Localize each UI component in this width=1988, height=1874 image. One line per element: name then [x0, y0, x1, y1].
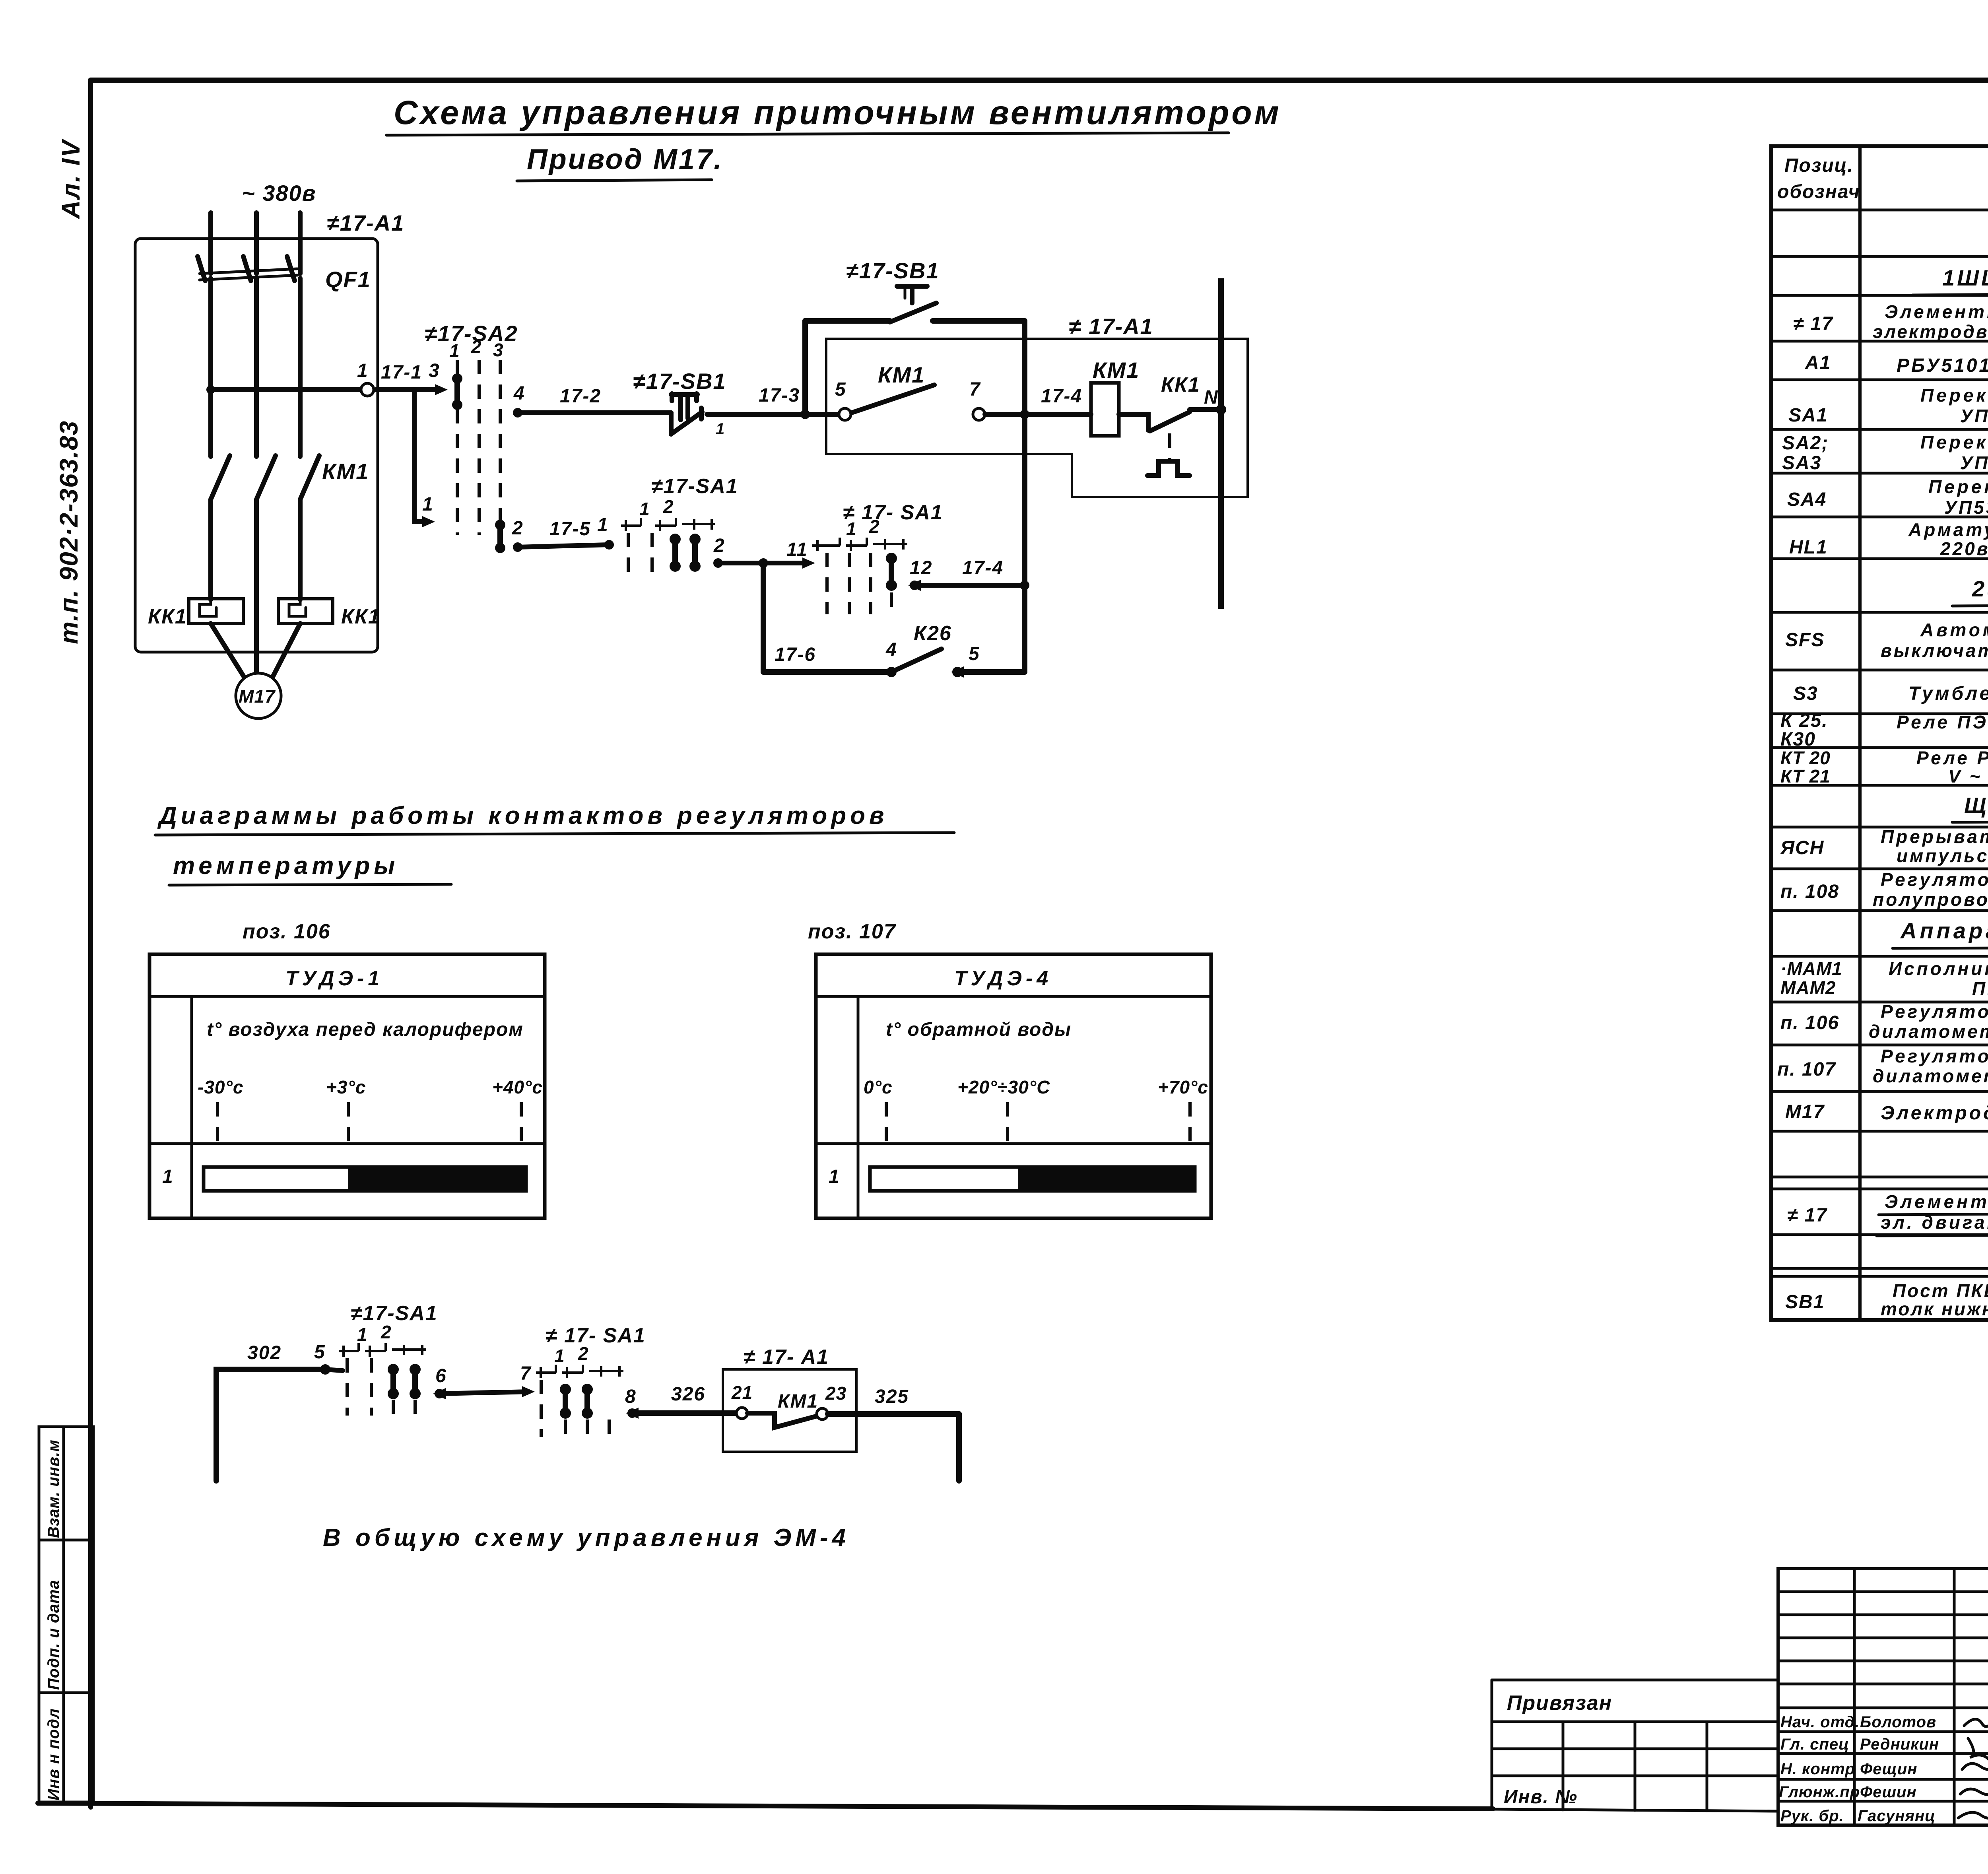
box A1 bottom: [723, 1369, 856, 1452]
label QF1: [325, 267, 371, 292]
wire 6 to 7: [439, 1386, 535, 1397]
svg-text:поз. 106: поз. 106: [243, 920, 331, 943]
svg-text:РБУ5101 - 03А2И: РБУ5101 - 03А2И: [1897, 355, 1988, 376]
svg-text:Инв н подл: Инв н подл: [45, 1708, 62, 1800]
svg-text:2: 2: [512, 518, 524, 539]
signature row Глюнж пр Фешин: [1779, 1783, 1988, 1801]
svg-text:Н. контр: Н. контр: [1780, 1760, 1855, 1778]
SA1 bottom group one tick rail: [339, 1343, 426, 1357]
scale mark dash +20-30C: [1006, 1102, 1009, 1144]
junction on interlock vertical: [1020, 410, 1029, 419]
label N: [1204, 387, 1219, 408]
label 23: [825, 1383, 846, 1404]
svg-text:1: 1: [846, 519, 857, 539]
wire 17-2: [518, 410, 671, 415]
svg-text:1: 1: [357, 1324, 368, 1345]
scale label 0C: [864, 1077, 893, 1097]
svg-text:SА1: SА1: [1788, 405, 1828, 426]
label 11: [786, 539, 808, 560]
svg-text:1: 1: [639, 499, 650, 519]
svg-text:М17: М17: [239, 686, 276, 707]
svg-text:температуры: температуры: [173, 852, 399, 880]
svg-text:11: 11: [786, 539, 808, 560]
svg-text:ТУДЭ-4: ТУДЭ-4: [954, 967, 1052, 990]
drawing frame bottom border: [38, 1803, 1493, 1809]
svg-text:1: 1: [422, 494, 434, 515]
svg-text:Глюнж.пр: Глюнж.пр: [1779, 1783, 1860, 1801]
terminal circle 5: [839, 408, 851, 420]
control box A1 outline: [826, 339, 1248, 497]
drawing frame top border: [91, 78, 1988, 83]
svg-text:Привод М17.: Привод М17.: [527, 144, 723, 175]
svg-text:К26: К26: [914, 622, 952, 645]
label ТУДЭ-1: [285, 967, 383, 990]
thermal relay KK1 heater left: [189, 599, 243, 623]
svg-text:t° воздуха перед калорифером: t° воздуха перед калорифером: [207, 1019, 524, 1040]
svg-text:КМ1: КМ1: [778, 1391, 818, 1412]
label 1 SA2: [449, 340, 460, 361]
junction drop to 17-6: [759, 558, 768, 568]
table row ЯСН Прерыватель: [1780, 826, 1988, 866]
label поз 107: [808, 920, 896, 943]
svg-text:220в цвет красн.: 220в цвет красн.: [1940, 538, 1988, 559]
table row SA1 Переключатель УП5313-А19: [1788, 385, 1988, 426]
svg-text:≠ 17- А1: ≠ 17- А1: [744, 1346, 829, 1369]
label 1 above terminal: [357, 360, 369, 381]
margin stamp text Взам. инв.№: [45, 1439, 62, 1538]
svg-text:К 25.: К 25.: [1780, 710, 1828, 731]
title Схема управления приточным вентилятором: [386, 94, 1281, 135]
SA1 bottom group two dashed line 2: [608, 1420, 611, 1437]
label 5: [835, 379, 846, 400]
phase wire L3 top: [298, 213, 303, 274]
table header Позиц обознач: [1777, 155, 1860, 202]
SA2 contact bridge on line 3 lower: [495, 520, 505, 553]
section title Диаграммы работы контактов регуляторов: [155, 802, 954, 835]
label 2 SA1 group two: [869, 516, 880, 537]
thermal relay KK1 heater right: [278, 599, 333, 623]
phase wire L3 middle: [298, 278, 303, 456]
svg-text:М17: М17: [1785, 1101, 1825, 1122]
wire from SA1 group one to junction: [718, 557, 815, 569]
SA1 bottom group one contact bridge a: [388, 1364, 399, 1416]
margin stamp text Подп. и дата: [45, 1580, 62, 1690]
svg-text:SА4: SА4: [1787, 489, 1827, 510]
svg-text:5: 5: [835, 379, 846, 400]
breaker QF1 pole 2 flag: [243, 256, 251, 281]
SA1 bottom group one dashed line 1: [346, 1358, 349, 1416]
label 7: [969, 379, 981, 400]
switch SA1 group two dashed line 3: [869, 553, 872, 614]
svg-text:Прерыватель ступенчатый: Прерыватель ступенчатый: [1881, 826, 1988, 847]
label 3 SA2: [493, 340, 504, 360]
svg-text:Ал. IV: Ал. IV: [56, 138, 85, 219]
bypass wire top left segment: [805, 318, 890, 324]
wire 325: [828, 1411, 959, 1417]
svg-text:Автоматический: Автоматический: [1920, 619, 1988, 640]
svg-text:К30: К30: [1780, 729, 1816, 750]
svg-text:дилатометрический ТУДЭ-1: дилатометрический ТУДЭ-1: [1869, 1021, 1988, 1042]
section title температуры: [169, 852, 451, 885]
svg-text:2: 2: [578, 1343, 589, 1364]
label 17-6: [775, 644, 816, 665]
svg-text:Исполнительный механизм: Исполнительный механизм: [1889, 958, 1988, 979]
label 2 bottom group one: [381, 1322, 392, 1342]
svg-text:7: 7: [969, 379, 981, 400]
svg-text:17-4: 17-4: [1041, 386, 1082, 407]
wire 17-5: [518, 540, 614, 550]
table row S3 Тумблер ТВ1-2: [1793, 681, 1988, 704]
label 2 SA2: [471, 336, 482, 357]
svg-text:6: 6: [435, 1365, 447, 1387]
breaker QF1 pole 1 flag: [198, 256, 205, 281]
label 1 wire 17-5 end: [597, 515, 609, 536]
label 3: [429, 360, 440, 381]
margin text Ал IV: [56, 138, 85, 219]
svg-text:≠ 17: ≠ 17: [1787, 1205, 1827, 1226]
svg-text:эл. двигателем М1≠: эл. двигателем М1≠: [1881, 1212, 1988, 1233]
svg-text:2: 2: [471, 336, 482, 357]
wire 17-4 lower: [914, 583, 1025, 588]
label 6: [435, 1365, 447, 1387]
svg-text:толк нижн 13, 1р: толк нижн 13, 1р: [1881, 1299, 1988, 1319]
table row SFS Автоматический выключатель: [1785, 619, 1988, 661]
svg-text:УП5311- С23: УП5311- С23: [1960, 452, 1988, 473]
svg-text:Гасунянц: Гасунянц: [1858, 1807, 1936, 1825]
svg-text:Элементы управления: Элементы управления: [1885, 301, 1988, 322]
label поз 106: [243, 920, 331, 943]
component table grid: [1771, 146, 1988, 1320]
svg-text:Регулятор температуры: Регулятор температуры: [1881, 1001, 1988, 1022]
svg-text:5: 5: [969, 643, 980, 664]
contact KM1 auxiliary: [852, 385, 934, 413]
svg-text:17-3: 17-3: [759, 385, 800, 406]
switch SA1 group two tick rail: [812, 538, 907, 551]
svg-text:Редникин: Редникин: [1860, 1736, 1939, 1753]
svg-text:п. 108: п. 108: [1780, 881, 1839, 902]
wire coil to KK1 contact: [1119, 414, 1148, 430]
SA1 bottom group two tick rail: [536, 1365, 623, 1378]
svg-text:Подп. и дата: Подп. и дата: [45, 1580, 62, 1690]
SA1 bottom group two dashed line 1: [540, 1380, 543, 1437]
svg-text:УП5312- С29: УП5312- С29: [1944, 497, 1988, 518]
svg-text:SВ1: SВ1: [1785, 1291, 1825, 1313]
motor M17: [236, 673, 281, 719]
breaker QF1 crossbar: [200, 269, 297, 280]
subtitle Привод М17: [517, 144, 723, 181]
table section Щит КИП: [1952, 793, 1988, 822]
scale mark dash +70C: [1188, 1102, 1192, 1144]
scale label +70C: [1158, 1077, 1208, 1097]
svg-text:п. 106: п. 106: [1780, 1012, 1839, 1033]
svg-text:3: 3: [429, 360, 440, 381]
cabinet box A1 power section: [135, 239, 378, 652]
phase wire L3 lower: [298, 499, 303, 600]
signature row Н контр Фещин: [1780, 1760, 1988, 1778]
terminal circle 1 on box edge: [361, 383, 374, 396]
svg-text:КК1: КК1: [1161, 373, 1200, 396]
svg-text:≠17-SB1: ≠17-SB1: [633, 369, 726, 394]
svg-text:N: N: [1204, 387, 1219, 408]
svg-text:обознач: обознач: [1777, 181, 1860, 202]
phase wire L1 lower: [208, 499, 213, 600]
switch SA2 dashed line 1: [456, 360, 459, 535]
svg-text:≠ 17: ≠ 17: [1793, 313, 1833, 334]
label 4: [513, 383, 525, 404]
junction K26 left: [886, 667, 897, 677]
wire 17-1 from phase to terminal: [211, 387, 364, 392]
svg-text:2: 2: [713, 535, 725, 556]
wire 326: [632, 1410, 736, 1416]
wire 17-6: [763, 669, 891, 675]
wire 326 start: [626, 1408, 639, 1419]
table section Аппаратура по месту: [1893, 918, 1988, 948]
svg-text:КК1: КК1: [148, 605, 187, 628]
label KM1 coil: [1093, 357, 1140, 383]
junction on N bus: [1216, 404, 1226, 415]
svg-text:УП5313- А19: УП5313- А19: [1960, 406, 1988, 426]
label KM1 aux: [878, 362, 925, 387]
wire 17-4 lower start: [908, 580, 921, 591]
svg-text:SFS: SFS: [1785, 629, 1825, 651]
table row п107 Регулятор ТУДЭ-4: [1777, 1046, 1988, 1086]
svg-text:t° обратной воды: t° обратной воды: [886, 1019, 1072, 1040]
svg-text:≠17-А1: ≠17-А1: [327, 210, 404, 235]
svg-text:2: 2: [381, 1322, 392, 1342]
svg-text:1ШЩ Панель 5: 1ШЩ Панель 5: [1942, 265, 1988, 290]
wire 17-5 start dot: [513, 542, 522, 552]
label ~380в supply: [242, 181, 316, 206]
wire 302 to SA1: [325, 1369, 343, 1371]
margin stamp boxes left bottom: [39, 1427, 93, 1802]
wire 11 start dot: [713, 558, 723, 568]
svg-text:1: 1: [357, 360, 369, 381]
motor feed wire left: [211, 623, 245, 678]
svg-text:выключатель А63-М Iр 2,5 А: выключатель А63-М Iр 2,5 А: [1881, 640, 1988, 661]
svg-text:12: 12: [910, 557, 932, 579]
SA1 bottom group two contact bridge a: [560, 1384, 571, 1437]
scale mark dash +40C: [520, 1102, 523, 1144]
contact K26: [891, 649, 942, 672]
svg-text:т.п. 902·2-363.83: т.п. 902·2-363.83: [54, 420, 83, 644]
label №17-SA1 bottom group one: [351, 1302, 438, 1325]
table row SA4 Переключатель УП5312-С29: [1787, 476, 1988, 518]
svg-text:1: 1: [162, 1166, 174, 1187]
svg-text:17-6: 17-6: [775, 644, 816, 665]
SA1 group two contact bridge: [886, 553, 897, 591]
svg-text:2ш щ Панель 2: 2ш щ Панель 2: [1972, 576, 1988, 601]
contactor KM1 pole 2: [256, 456, 276, 499]
thermal contact KK1 break: [1147, 410, 1220, 476]
svg-text:Регулятор температуры: Регулятор температуры: [1881, 869, 1988, 890]
label ТУДЭ-4: [954, 967, 1052, 990]
svg-text:МАМ2: МАМ2: [1780, 977, 1836, 998]
svg-text:Тумблер. ТВ1-2: Тумблер. ТВ1-2: [1908, 683, 1988, 704]
terminal circle 7: [973, 408, 985, 420]
phase wire L2 middle: [254, 278, 259, 456]
svg-text:КМ1: КМ1: [1093, 357, 1140, 383]
label 325: [875, 1386, 909, 1407]
revision box Привязан: [1492, 1680, 1778, 1811]
switch SA1 group one dashed line 2: [650, 533, 654, 576]
label 326: [671, 1384, 705, 1405]
switch SA1 group two dashed line 4 short: [890, 592, 893, 614]
svg-text:0°с: 0°с: [864, 1077, 893, 1097]
contact K26 right dot: [951, 666, 964, 678]
contact band TUDE-1: [204, 1167, 526, 1191]
label 2 wire 17-5: [512, 518, 524, 539]
scale label -30C: [198, 1077, 243, 1097]
label K26: [914, 622, 952, 645]
svg-text:·МАМ1: ·МАМ1: [1780, 958, 1842, 979]
svg-text:Диаграммы работы контактов: Диаграммы работы контактов регуляторов: [157, 802, 888, 829]
svg-text:В общую схему управления ЭМ: В общую схему управления ЭМ-4: [323, 1524, 850, 1552]
svg-text:КТ 21: КТ 21: [1780, 766, 1831, 786]
svg-text:5: 5: [314, 1342, 326, 1363]
wire 17-2 start dot: [513, 408, 522, 418]
label 302: [247, 1342, 282, 1363]
svg-text:≠17-SA1: ≠17-SA1: [651, 475, 738, 498]
svg-text:КК1: КК1: [341, 605, 381, 628]
phase wire L2 top: [254, 213, 259, 274]
label 4 K26: [885, 639, 897, 660]
svg-text:Арматура ЛС-53: Арматура ЛС-53: [1908, 519, 1988, 540]
svg-text:п. 107: п. 107: [1777, 1059, 1836, 1080]
svg-text:≠ 17- SA1: ≠ 17- SA1: [546, 1324, 646, 1347]
label 2 bottom group two: [578, 1343, 589, 1364]
svg-text:17-1: 17-1: [381, 362, 422, 383]
scale label +40C: [492, 1077, 543, 1097]
svg-text:Взам. инв.м: Взам. инв.м: [45, 1439, 62, 1538]
svg-text:электродвигателей М17: электродвигателей М17: [1873, 321, 1988, 342]
signature row Рук бр Гасунянц: [1780, 1807, 1988, 1832]
svg-text:Переключатель: Переключатель: [1920, 432, 1988, 452]
bus N vertical: [1218, 278, 1224, 609]
label 17-5: [549, 519, 591, 540]
signature row Нач отд Болотов: [1780, 1713, 1988, 1732]
svg-text:Привязан: Привязан: [1507, 1691, 1612, 1715]
breaker QF1 pole 3 flag: [287, 256, 295, 281]
scale mark dash 0C: [885, 1102, 888, 1144]
terminal circle 21: [736, 1408, 747, 1419]
switch SA1 group one tick rail: [621, 518, 715, 531]
SA1 group one contact bridge b: [689, 534, 701, 572]
svg-text:КМ1: КМ1: [322, 459, 369, 484]
label 17-4 lower: [962, 557, 1004, 579]
label 17-3: [759, 385, 800, 406]
svg-text:2: 2: [869, 516, 880, 537]
label №17-SA2: [425, 321, 518, 346]
wire K26 to vertical: [957, 669, 1025, 675]
label 21: [731, 1382, 753, 1403]
svg-text:дилатометрический ТУДЭ- 4: дилатометрический ТУДЭ- 4: [1873, 1066, 1988, 1086]
svg-text:импульсный СИП- 01: импульсный СИП- 01: [1897, 845, 1988, 866]
pushbutton SB1 start contact: [890, 286, 936, 322]
label №17-SB1 stop: [633, 369, 726, 394]
label 2 wire 11: [713, 535, 725, 556]
svg-text:Пост ПКЕ 242- 2УЗ толк: Пост ПКЕ 242- 2УЗ толк верх 13,1р: [1893, 1280, 1988, 1301]
branch drop wire to lower row: [414, 390, 435, 527]
phase wire L1 middle: [208, 278, 213, 456]
label 1 at branch arrow: [422, 494, 434, 515]
drawing frame left border: [88, 80, 93, 1807]
pushbutton SB1 stop contact: [671, 394, 702, 434]
label KK1 right: [341, 605, 381, 628]
label №17-SA1 group two: [843, 501, 943, 524]
svg-text:≠17-SB1: ≠17-SB1: [846, 258, 940, 283]
motor feed wire right: [272, 623, 300, 678]
label 17-1: [381, 362, 422, 383]
svg-text:≠17-SA1: ≠17-SA1: [351, 1302, 438, 1325]
svg-text:А1: А1: [1805, 352, 1831, 373]
svg-text:3: 3: [493, 340, 504, 360]
svg-text:QF1: QF1: [325, 267, 371, 292]
junction 17-4 on vertical: [1020, 581, 1029, 590]
table row SA2 SA3 Переключатель УП5311-С23: [1782, 432, 1988, 474]
svg-text:326: 326: [671, 1384, 705, 1405]
SA1 bottom group one contact bridge b: [410, 1364, 421, 1416]
table row SB1 Пост ПКЕ 242: [1785, 1280, 1988, 1319]
label 1 bottom group two: [554, 1346, 565, 1366]
table row п108 Регулятор РТ-3: [1780, 869, 1988, 910]
switch SA1 group two dashed line 1: [825, 553, 829, 614]
label KM1 bottom: [778, 1391, 818, 1412]
label KK1 contact: [1161, 373, 1200, 396]
scale label +20-30C: [957, 1077, 1050, 1097]
phase wire L1 top: [208, 213, 213, 274]
table section 2ШЩ Панель2: [1952, 576, 1988, 606]
svg-text:SА3: SА3: [1782, 452, 1821, 474]
svg-text:17-4: 17-4: [962, 557, 1004, 579]
svg-text:Аппаратура по месту: Аппаратура по месту: [1900, 918, 1988, 943]
margin stamp text Инв № подл: [45, 1708, 62, 1800]
svg-text:Нач. отд.: Нач. отд.: [1780, 1713, 1860, 1731]
label 8: [625, 1386, 637, 1407]
svg-text:Переключате ль: Переключате ль: [1920, 385, 1988, 406]
svg-text:2: 2: [663, 496, 674, 517]
scale label +3C: [326, 1077, 366, 1097]
table row п106 Регулятор ТУДЭ-1: [1780, 1001, 1988, 1042]
junction bypass left: [800, 410, 810, 419]
svg-text:ТУДЭ-1: ТУДЭ-1: [285, 967, 383, 990]
svg-text:~ 380в: ~ 380в: [242, 181, 316, 206]
svg-text:23: 23: [825, 1383, 846, 1404]
svg-text:≠ 17- SA1: ≠ 17- SA1: [843, 501, 943, 524]
contact band TUDE-4: [870, 1167, 1195, 1191]
svg-text:Рук. бр.: Рук. бр.: [1780, 1807, 1844, 1825]
signature row Гл спец Редникин: [1780, 1736, 1988, 1766]
svg-text:Инв. №: Инв. №: [1504, 1787, 1578, 1808]
label Привязан: [1507, 1691, 1612, 1715]
svg-text:17-2: 17-2: [560, 386, 601, 407]
svg-text:1: 1: [597, 515, 609, 536]
svg-text:Регулятор температуры: Регулятор температуры: [1881, 1046, 1988, 1066]
svg-text:Реле РВП 72- 3221- 00У4: Реле РВП 72- 3221- 00У4: [1916, 748, 1988, 768]
label t воздуха перед калорифером: [207, 1019, 524, 1040]
label 1 SA1 group one: [639, 499, 650, 519]
svg-text:КТ 20: КТ 20: [1780, 748, 1831, 768]
label t обратной воды: [886, 1019, 1072, 1040]
label 1 row TUDE-4: [829, 1166, 840, 1187]
switch SA2 dashed line 3: [499, 360, 502, 535]
svg-text:Фещин: Фещин: [1860, 1760, 1917, 1778]
svg-text:Электродвигатель 380в: Электродвигатель 380в: [1881, 1103, 1988, 1124]
label №17-А1 bottom: [744, 1346, 829, 1369]
regulator TUDE-1 box: [149, 954, 545, 1218]
svg-text:1: 1: [716, 420, 725, 438]
switch SA1 group one dashed line 1: [627, 533, 630, 576]
label 7: [520, 1363, 532, 1384]
